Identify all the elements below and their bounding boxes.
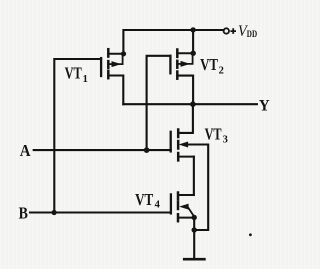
svg-text:VT: VT (205, 124, 222, 143)
svg-text:2: 2 (219, 65, 224, 76)
junction dot VT2 drain stub (191, 51, 196, 56)
VT2 bulk arrow (points right) (177, 63, 181, 65)
svg-text:A: A (20, 141, 31, 160)
wire B input line (30, 211, 171, 213)
transistor VT3 (NMOS) (171, 130, 194, 161)
ground symbol (183, 258, 206, 261)
VT1 channel segment top (107, 49, 110, 56)
transistor VT4 (NMOS) (171, 193, 194, 222)
svg-text:B: B (19, 203, 28, 222)
svg-text:4: 4 (155, 200, 161, 211)
VT1 channel segment bottom (107, 71, 110, 78)
wire VT2 drain to rail (192, 30, 194, 53)
svg-text:Y: Y (259, 98, 270, 115)
VT4 drain stub (178, 194, 194, 196)
svg-text:1: 1 (83, 74, 88, 85)
VT1 bulk arrow (points right) (108, 63, 112, 65)
wire VT3 bulk down to ground node (187, 145, 208, 231)
stray ink dot (249, 233, 252, 236)
VT4 channel segment top (177, 193, 180, 200)
VT2 channel segment bottom (176, 72, 179, 79)
VT2 gate bar (169, 56, 171, 74)
VT4 channel segment middle (177, 202, 180, 209)
VT3 channel segment middle (177, 141, 180, 149)
wire VT3 source to VT4 drain (193, 157, 195, 195)
VT3 gate bar (170, 132, 172, 152)
transistor VT1 (PMOS) (101, 49, 123, 78)
VT3 source stub (178, 156, 194, 158)
VT4 bulk arrow (points left) (181, 204, 188, 209)
wire VT3 drain to Y node (178, 104, 193, 133)
VT1 drain stub (108, 53, 123, 55)
svg-text:DD: DD (247, 30, 257, 40)
svg-text:VT: VT (65, 64, 82, 83)
junction dot node B (52, 210, 57, 215)
wire VT1 source to Y line (108, 76, 123, 105)
svg-text:VT: VT (135, 190, 153, 209)
VT4 gate bar (170, 194, 172, 213)
VT3 bulk arrow (points left) (180, 142, 187, 147)
label +VDD (230, 23, 257, 40)
junction dot VT4 source (192, 215, 197, 220)
VT3 channel segment top (177, 130, 180, 138)
VT2 channel segment top (176, 50, 179, 57)
VDD terminal circle (224, 28, 229, 33)
junction dot ground node (192, 227, 197, 232)
VT1 channel segment middle (107, 61, 110, 68)
junction dot VT1 drain stub (121, 51, 126, 56)
junction dot Y node (190, 101, 196, 107)
transistor VT2 (PMOS) (170, 50, 193, 79)
VT2 drain stub (177, 52, 193, 54)
wire VT2 gate branch to node A (147, 56, 171, 150)
VT3 channel segment bottom (177, 153, 180, 160)
junction dot node A (144, 147, 150, 153)
wire A input line (34, 149, 171, 151)
junction dot at rail / VT2 drain (190, 27, 195, 32)
VT2 channel segment middle (176, 61, 179, 68)
svg-text:VT: VT (200, 55, 218, 74)
VT4 source stub (178, 217, 194, 219)
wire Y output line (123, 103, 257, 105)
VT1 gate bar (100, 58, 102, 76)
svg-text:3: 3 (223, 135, 228, 146)
wire VT4 source to ground (193, 218, 195, 259)
wire VT1 gate branch to node B (54, 59, 101, 213)
VT4 channel segment bottom (177, 214, 180, 221)
wire VT2 source to Y node (177, 76, 193, 105)
wire VDD rail (top) (123, 30, 223, 54)
